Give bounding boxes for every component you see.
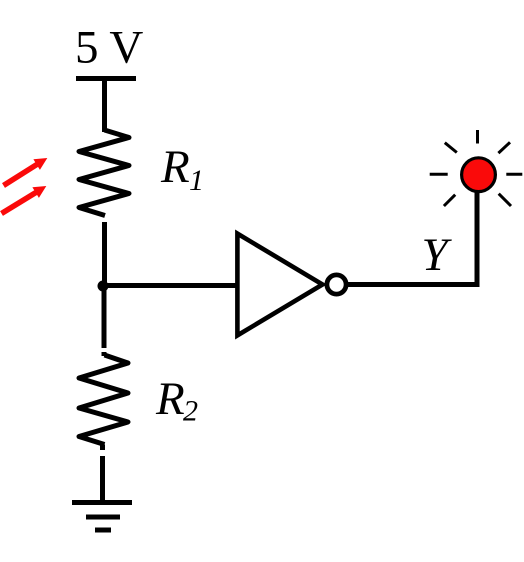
svg-text:1: 1 [189, 164, 204, 197]
LED rays [430, 130, 523, 206]
light arrow 1 (upper, incident light on R1) [4, 158, 48, 186]
wire stub above R2 [102, 352, 107, 356]
op-amp U1 (inverter triangle) [237, 234, 322, 336]
light arrow 2 (lower, incident light on R1) [2, 186, 47, 214]
inverter output bubble [327, 275, 346, 294]
ground [72, 503, 132, 531]
svg-text:5 V: 5 V [75, 22, 143, 74]
wire: node A to R2 [102, 286, 107, 348]
label R2 [155, 373, 198, 428]
svg-text:2: 2 [183, 395, 198, 428]
wire: node A to inverter input [103, 283, 237, 288]
resistor R1 (photoresistor) [79, 130, 129, 216]
wire: supply bar to R1 [102, 79, 107, 133]
svg-text:R: R [160, 141, 190, 193]
svg-text:R: R [155, 373, 185, 425]
LED indicator (lit lamp) [462, 158, 496, 192]
power rail bar (5 V supply) [76, 76, 136, 81]
wire stub below R2 [100, 445, 105, 451]
label R1 [160, 141, 204, 197]
resistor R2 [79, 355, 128, 445]
wire: bubble to LED (net Y) [346, 190, 477, 285]
wire: R2 to ground [100, 456, 105, 502]
wire: R1 to node A [102, 222, 107, 288]
node A (junction dot) [98, 281, 109, 292]
